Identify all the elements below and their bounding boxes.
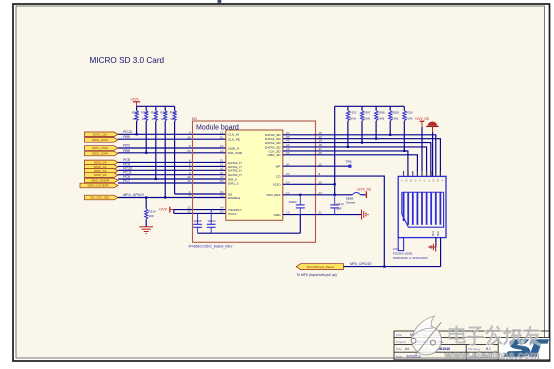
power +2V9 top-left — [130, 98, 140, 107]
port SDIO_CKIN — [85, 138, 119, 143]
svg-text:CMD_H: CMD_H — [228, 146, 239, 150]
svg-text:GND: GND — [274, 213, 282, 217]
connector CN3 pin name row — [401, 180, 444, 183]
wire CMD_SD to card — [283, 155, 418, 177]
svg-text:MICRO SD 3.0 Card: MICRO SD 3.0 Card — [90, 56, 165, 65]
wire GND row — [283, 214, 361, 216]
svg-text:B3: B3 — [220, 179, 224, 183]
svg-text:+2V9: +2V9 — [158, 207, 167, 211]
net label PC6 — [123, 175, 130, 179]
svg-text:MFX_GPIO3: MFX_GPIO3 — [123, 193, 144, 197]
wire PB8 to CLK_FB — [118, 138, 226, 140]
pin name VCCA — [228, 212, 238, 216]
watermark leaf logo — [411, 316, 441, 355]
svg-text:D: D — [410, 180, 412, 183]
net label PC9 — [123, 162, 130, 166]
top zone tick — [218, 0, 222, 3]
svg-text:SDIO_CDIR: SDIO_CDIR — [92, 152, 109, 156]
pin name WP — [276, 165, 281, 169]
svg-text:R302: R302 — [170, 111, 178, 115]
pin name DATA2_SD — [265, 141, 281, 145]
svg-text:R309: R309 — [392, 111, 400, 115]
net label PC8 — [123, 158, 130, 162]
ground symbol right of module — [362, 210, 369, 220]
wire CLK_SD to card — [283, 151, 408, 177]
pin name CD — [276, 175, 281, 179]
svg-text:A2: A2 — [220, 149, 224, 153]
pin name CMD_SD — [267, 153, 281, 157]
title block row Date — [396, 354, 421, 358]
pin name V12O — [273, 183, 282, 187]
port SDIO_CMD — [85, 146, 119, 151]
svg-text:SDIO_D0: SDIO_D0 — [94, 161, 107, 165]
svg-text:C1: C1 — [220, 130, 224, 134]
net label MFX_GPIO3 — [123, 193, 144, 197]
svg-text:100nF: 100nF — [194, 219, 203, 223]
title block field Sheet — [469, 354, 493, 358]
port SDIO_D0 — [85, 160, 119, 165]
svg-text:PC12: PC12 — [123, 130, 132, 134]
svg-text:DIR1_3: DIR1_3 — [228, 181, 239, 185]
wire DATA3_SD to card — [283, 147, 427, 177]
svg-text:6/05/2013: 6/05/2013 — [407, 354, 421, 358]
svg-text:C2: C2 — [220, 194, 224, 198]
svg-text:VCCA: VCCA — [228, 212, 238, 216]
svg-text:Closed: Closed — [346, 201, 356, 205]
svg-text:10K: 10K — [132, 117, 137, 121]
title block row Project — [396, 339, 444, 344]
watermark chinese char shao — [503, 328, 522, 345]
svg-text:R307: R307 — [363, 111, 371, 115]
port SD_LDO_SEL — [85, 195, 119, 200]
wire V12O — [283, 183, 335, 185]
svg-text:SDIO_CKIN: SDIO_CKIN — [92, 138, 108, 142]
watermark chinese char zi — [467, 328, 485, 345]
wire detect flag to CD net — [344, 266, 386, 268]
svg-text:SDIO_D0DIR: SDIO_D0DIR — [91, 179, 110, 183]
port SDIO_D2 — [85, 169, 119, 174]
wire supply rail right bank — [335, 105, 405, 107]
svg-text:SDIO_D3: SDIO_D3 — [94, 173, 107, 177]
wire CD down and across — [283, 176, 441, 267]
svg-text:10K: 10K — [151, 117, 156, 121]
svg-text:100nF: 100nF — [207, 219, 216, 223]
wire shield stub SH2 — [440, 238, 442, 267]
designator M1 — [192, 117, 197, 121]
net label PB8 — [123, 135, 130, 139]
resistor R305 10K — [151, 106, 159, 179]
junction R306/ENABLE — [164, 196, 166, 198]
part name text IP4856CX25 — [189, 245, 234, 249]
svg-text:IP4856CX25/C_Matrix_REV: IP4856CX25/C_Matrix_REV — [189, 245, 234, 249]
ground symbol under R314 — [139, 227, 153, 234]
watermark chinese char you — [523, 326, 540, 345]
svg-text:DIR_CMD: DIR_CMD — [228, 151, 243, 155]
pin name VSUPPLY — [228, 208, 242, 212]
resistor R306 10K — [160, 106, 168, 197]
module title Module board — [196, 125, 239, 132]
svg-text:C: C — [424, 180, 426, 183]
svg-text:To MFX (input with pull up): To MFX (input with pull up) — [297, 273, 337, 277]
svg-text:R306: R306 — [160, 111, 168, 115]
svg-text:+2V9: +2V9 — [130, 98, 139, 102]
port MicroSDCard_Detect — [296, 264, 343, 270]
right pin designators — [286, 131, 290, 215]
svg-text:V12O: V12O — [273, 183, 282, 187]
svg-text:CMD_SD: CMD_SD — [267, 153, 281, 157]
pin name DIR_0 — [228, 177, 237, 181]
svg-text:SH1: SH1 — [431, 231, 435, 237]
net label PB9 — [123, 149, 130, 153]
resistor R312 N/A — [346, 106, 357, 148]
svg-text:www.elecfans.com: www.elecfans.com — [444, 350, 540, 361]
ground symbol card shield — [429, 242, 436, 251]
junction R304/PB9 — [145, 152, 147, 154]
svg-text:M1: M1 — [192, 117, 197, 121]
watermark chinese char fa — [486, 326, 502, 345]
svg-text:R308: R308 — [378, 111, 386, 115]
svg-text:[N/A]: [N/A] — [378, 117, 385, 121]
svg-text:D: D — [433, 180, 435, 183]
svg-text:[N/A]: [N/A] — [349, 117, 356, 121]
connector CN3 pin stubs — [404, 171, 441, 176]
watermark url text — [444, 350, 540, 361]
wire VSD_REF — [283, 194, 352, 196]
power +2V9_SD at SB08 — [357, 188, 372, 198]
junction R303/PC12 — [136, 133, 138, 135]
svg-text:D2: D2 — [220, 144, 224, 148]
wire PC7 to DIR1_3 — [118, 182, 226, 184]
svg-text:A1: A1 — [220, 166, 224, 170]
pin name DATA0_SD — [265, 133, 281, 137]
port SDIO_CLK — [85, 132, 119, 137]
svg-text:SDIO_CMD: SDIO_CMD — [92, 146, 109, 150]
pin name VSD_REF — [266, 193, 280, 197]
svg-text:10K: 10K — [142, 117, 147, 121]
svg-text:SDIO_CLK: SDIO_CLK — [93, 133, 108, 137]
net label PC7 — [123, 179, 131, 183]
net label PC10 — [123, 166, 132, 170]
svg-text:R312: R312 — [349, 111, 357, 115]
svg-text:[N/A]: [N/A] — [406, 117, 413, 121]
capacitor C307 100nF — [207, 210, 216, 234]
capacitor C305 100nF on VSD_REF — [289, 195, 305, 215]
wire SE — [175, 193, 226, 195]
wire supply rail left bank — [137, 105, 175, 107]
connector foot notch — [398, 238, 403, 251]
pin name DATA0_H — [228, 161, 241, 165]
pin name DIR1_3 — [228, 181, 239, 185]
svg-text:ENABLE: ENABLE — [228, 196, 240, 200]
resistor R304 10K — [141, 106, 149, 153]
wire pull-up supply vertical from rail to VSD_REF — [334, 106, 336, 195]
note To MFX — [297, 273, 337, 277]
pin name DATA1_H — [228, 165, 241, 169]
title block row Title — [396, 333, 441, 337]
svg-text:R310: R310 — [406, 111, 414, 115]
svg-text:10K: 10K — [161, 117, 166, 121]
svg-text:SDIO_D123DIR: SDIO_D123DIR — [87, 184, 109, 188]
wire MFX_GPIO3 to ENABLE — [118, 197, 226, 199]
pin name DIR_CMD — [228, 151, 243, 155]
svg-text:Date:: Date: — [396, 354, 403, 358]
wire VCCA with riser — [174, 210, 226, 214]
left pin designators — [220, 130, 224, 213]
wire VSUPPLY — [174, 209, 226, 211]
port SDIO_D123DIR — [80, 183, 118, 188]
connector cavity outline — [402, 192, 444, 227]
svg-text:CLK_FB: CLK_FB — [228, 138, 240, 142]
right pin numbers — [319, 131, 323, 215]
ST logo — [499, 338, 549, 359]
svg-text:WP: WP — [276, 165, 281, 169]
pin name DATA3_SD — [265, 145, 281, 149]
wire DATA1_SD to card — [283, 139, 441, 177]
connector comb top line — [402, 191, 444, 193]
svg-text:24: 24 — [187, 149, 191, 153]
wire PC10 to DATA2_H — [118, 169, 226, 171]
svg-text:11: 11 — [187, 179, 190, 183]
svg-text:R304: R304 — [141, 111, 149, 115]
svg-text:PB8: PB8 — [123, 135, 130, 139]
module board outline box — [193, 121, 316, 242]
pin name CLK_SD — [268, 149, 281, 153]
svg-text:SH2: SH2 — [436, 231, 440, 237]
svg-text:CD: CD — [276, 175, 281, 179]
svg-text:P2036S-300B: P2036S-300B — [393, 251, 412, 255]
connector CN3 reference text — [393, 247, 428, 260]
svg-text:PD2: PD2 — [123, 144, 130, 148]
resistor R310 N/A — [403, 106, 414, 152]
svg-text:CN3: CN3 — [393, 247, 399, 251]
resistor R314 10K pulldown — [145, 196, 156, 226]
svg-text:10K: 10K — [170, 117, 175, 121]
junction V12O rail — [334, 183, 336, 185]
svg-text:10K: 10K — [149, 214, 154, 218]
pin name ENABLE — [228, 196, 240, 200]
capacitor C312 1uF on VSD_REF rail — [330, 195, 344, 215]
svg-text:VSD_REF: VSD_REF — [266, 193, 280, 197]
resistor R307 N/A — [360, 106, 371, 143]
resistor R309 N/A — [389, 106, 400, 136]
wire cap ground rail — [198, 215, 301, 234]
resistor R303 10K — [132, 106, 140, 134]
pin name SE — [228, 192, 232, 196]
pin name DATA3_H — [228, 173, 241, 177]
pin name CLK_IN — [228, 133, 239, 137]
title block frame — [394, 331, 550, 360]
capacitor C306 100nF — [193, 213, 202, 233]
svg-text:PB9: PB9 — [123, 149, 130, 153]
connector CN3 outline — [398, 176, 446, 237]
wire PC9 to DATA1_H — [118, 165, 226, 167]
wire PC11 to DATA3_H — [118, 174, 226, 176]
ground dome symbol at card VSS — [426, 122, 438, 177]
port SDIO_D1 — [85, 165, 119, 170]
sheet title text — [90, 56, 165, 65]
watermark chinese char dian — [450, 326, 465, 343]
left pin numbers — [187, 130, 191, 213]
svg-text:1uF: 1uF — [337, 206, 342, 210]
net label MFX_GPIO15 — [350, 262, 371, 266]
net label PC12 — [123, 130, 132, 134]
wire PC12 to CLK_IN — [118, 133, 226, 135]
svg-text:C: C — [415, 180, 417, 183]
wire DATA0_SD to card — [283, 135, 436, 177]
svg-text:MFX_GPIO15: MFX_GPIO15 — [350, 262, 371, 266]
wire PD2 to CMD_H — [118, 147, 226, 149]
port SDIO_D3 — [85, 173, 119, 178]
svg-text:MicroSDCard_Detect: MicroSDCard_Detect — [307, 265, 335, 269]
junction R305/PC6 — [155, 178, 157, 180]
resistor R308 N/A — [375, 106, 386, 140]
pin name DATA1_SD — [265, 137, 281, 141]
svg-text:D: D — [406, 180, 408, 183]
wire DATA2_SD to card — [283, 143, 431, 177]
solder bridge SB08 — [346, 193, 367, 205]
pin name GND — [274, 213, 282, 217]
svg-text:R305: R305 — [151, 111, 159, 115]
power +2V9_SD at card VDD — [415, 117, 430, 176]
junction VSD_REF caps — [299, 194, 336, 196]
wire PB9 to DIR_CMD — [118, 152, 226, 154]
connector comb teeth — [404, 192, 441, 225]
svg-text:E1: E1 — [220, 135, 224, 139]
svg-text:+2V9_SD: +2V9_SD — [415, 117, 430, 121]
svg-text:CLK_IN: CLK_IN — [228, 133, 239, 137]
svg-text:D: D — [437, 180, 439, 183]
resistor R302 10K — [170, 106, 178, 194]
port SDIO_D0DIR — [85, 178, 119, 183]
wire shield stub SH1 — [435, 238, 437, 247]
title block field Revision — [469, 347, 492, 351]
svg-text:SD_LDO_SEL: SD_LDO_SEL — [90, 196, 110, 200]
svg-text:+2V9_SD: +2V9_SD — [357, 188, 372, 192]
svg-text:Size:: Size: — [396, 347, 403, 351]
svg-text:PC7: PC7 — [123, 179, 131, 183]
svg-text:DATA2_H: DATA2_H — [228, 169, 241, 173]
port SDIO_CDIR — [85, 151, 119, 156]
wire PC8 to DATA0_H — [118, 161, 226, 163]
svg-text:Title:: Title: — [396, 333, 403, 337]
svg-text:16: 16 — [187, 135, 191, 139]
title block row Size Number — [396, 347, 450, 351]
svg-text:25: 25 — [187, 210, 191, 214]
svg-text:[N/A]: [N/A] — [392, 117, 399, 121]
wire PC6 to DIR_0 — [118, 178, 226, 180]
wire WP to TP6 — [283, 165, 350, 167]
svg-text:100nF: 100nF — [289, 200, 298, 204]
pin name DATA2_H — [228, 169, 241, 173]
svg-text:TP6: TP6 — [346, 160, 352, 164]
svg-text:PC10: PC10 — [123, 166, 132, 170]
net label PC11 — [123, 171, 132, 175]
connector shield pin labels SH1 SH2 — [431, 231, 440, 237]
svg-text:Project:: Project: — [396, 340, 406, 344]
pin name CMD_H — [228, 146, 239, 150]
svg-text:B4: B4 — [220, 210, 224, 214]
svg-text:A4: A4 — [405, 347, 409, 351]
pin name CLK_FB — [228, 138, 240, 142]
svg-text:SM06049F or SMS210FF: SM06049F or SMS210FF — [393, 256, 428, 260]
power +2V9 for VSUPPLY — [158, 207, 174, 213]
svg-text:[N/A]: [N/A] — [363, 117, 370, 121]
op-amp U1 yellow body IP4856CX25 — [226, 130, 283, 220]
net label PD2 — [123, 144, 130, 148]
svg-text:R303: R303 — [132, 111, 140, 115]
test point TP6 — [346, 160, 352, 168]
